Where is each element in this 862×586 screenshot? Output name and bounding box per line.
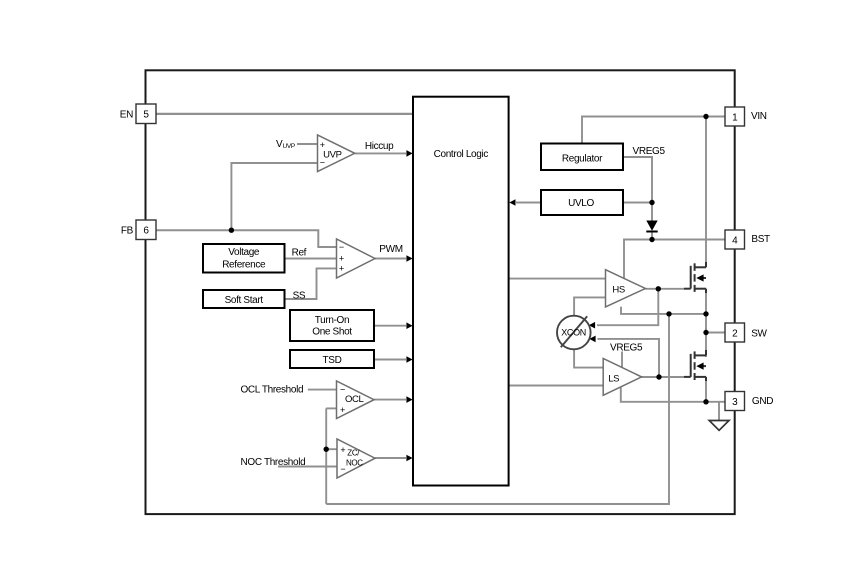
wire LS FET source to GND: [705, 377, 707, 402]
svg-text:SS: SS: [293, 291, 306, 302]
outer IC boundary frame: [146, 70, 735, 514]
svg-text:NOC Threshold: NOC Threshold: [241, 457, 306, 468]
svg-text:EN: EN: [120, 109, 133, 120]
block Regulator: [541, 144, 623, 171]
svg-text:BST: BST: [751, 234, 770, 245]
wire XCON to LS driver: [574, 349, 603, 367]
wire diode cathode to BST line: [651, 232, 653, 240]
node SW sense junction: [666, 311, 671, 316]
svg-text:Reference: Reference: [222, 259, 266, 270]
wire VIN pin to Regulator: [582, 117, 725, 144]
svg-text:TSD: TSD: [323, 355, 342, 366]
svg-text:5: 5: [143, 110, 149, 121]
svg-text:3: 3: [732, 397, 738, 408]
diode D1 bootstrap: [646, 221, 657, 231]
pin 1 VIN: [725, 107, 745, 126]
wire bottom sense line to SW node: [326, 314, 669, 504]
wire NOC Threshold to ZC minus input: [278, 466, 337, 468]
svg-text:+: +: [340, 445, 345, 455]
wire LS output to gate: [642, 376, 684, 378]
wire UVLO output to Control Logic: [516, 202, 541, 204]
wire current sense vertical: [325, 408, 327, 504]
svg-text:Voltage: Voltage: [228, 247, 260, 258]
svg-text:2: 2: [732, 328, 738, 339]
XCON block: [557, 316, 591, 350]
svg-text:UVP: UVP: [283, 143, 295, 150]
wire ZC plus input: [326, 448, 337, 450]
block UVLO: [541, 190, 623, 215]
svg-text:Turn-On: Turn-On: [315, 315, 349, 326]
wire VREG5 stub to LS driver: [621, 352, 623, 368]
wire HS output to gate: [645, 288, 684, 290]
svg-text:+: +: [339, 254, 344, 264]
wire BST line: [624, 240, 725, 279]
wire Ref to PWM comparator: [285, 258, 337, 260]
node GND junction: [703, 399, 708, 404]
driver LS: [603, 359, 641, 396]
wire OCL Threshold to OCL minus input: [308, 389, 337, 391]
wire Control Logic to LS driver input: [509, 385, 604, 387]
svg-text:Ref: Ref: [292, 248, 307, 259]
wire VIN rail down to HS FET drain: [705, 117, 707, 265]
node VIN junction: [703, 114, 708, 119]
svg-text:SW: SW: [751, 329, 767, 340]
svg-text:6: 6: [143, 226, 149, 237]
wire EN pin5 to Control Logic: [156, 113, 413, 115]
ground symbol: [709, 421, 729, 431]
svg-text:VREG5: VREG5: [633, 146, 666, 157]
wire OCL output to Control Logic: [374, 399, 406, 401]
node sense junction: [324, 447, 329, 452]
op-amp OCL comparator: [337, 381, 375, 419]
wire TSD output to Control Logic: [374, 359, 406, 361]
svg-text:VREG5: VREG5: [610, 343, 643, 354]
svg-text:Soft Start: Soft Start: [225, 295, 264, 306]
wire ground stub: [718, 402, 720, 421]
driver HS: [606, 270, 646, 307]
svg-text:+: +: [340, 405, 345, 415]
node SW fet junction: [703, 311, 708, 316]
wire Regulator output VREG5: [623, 157, 652, 221]
transistor Q2 low-side FET: [684, 350, 706, 381]
pin 4 BST: [725, 230, 745, 249]
block Soft Start: [203, 290, 285, 308]
wire Control Logic to HS driver input: [509, 278, 606, 280]
wire LS driver return to GND: [621, 387, 725, 402]
block Turn-On One Shot: [290, 310, 374, 341]
wire Turn-On One Shot output to Control Logic: [374, 325, 406, 327]
op-amp ZC/NOC comparator: [337, 439, 375, 478]
wire Hiccup UVP output to Control Logic: [355, 152, 406, 154]
wire FB to UVP minus input: [231, 163, 317, 230]
block Voltage Reference: [203, 244, 285, 273]
svg-text:NOC: NOC: [346, 458, 363, 467]
svg-text:−: −: [340, 464, 345, 474]
node BST junction: [649, 237, 654, 242]
pin 6 FB: [136, 220, 156, 240]
block TSD: [290, 350, 374, 368]
svg-text:ZC/: ZC/: [347, 449, 360, 458]
svg-text:GND: GND: [752, 396, 773, 407]
node HS output junction: [656, 286, 661, 291]
svg-text:+: +: [320, 140, 325, 150]
wire SW node to pin2: [706, 332, 725, 334]
svg-text:Regulator: Regulator: [562, 153, 603, 164]
svg-text:VIN: VIN: [751, 111, 767, 122]
svg-text:UVLO: UVLO: [568, 198, 594, 209]
wire FB pin6 horizontal: [156, 230, 337, 247]
op-amp PWM comparator: [337, 239, 376, 278]
block Control Logic: [413, 97, 509, 486]
wire UVLO to VREG5 node: [623, 202, 652, 204]
svg-text:UVP: UVP: [323, 150, 341, 161]
wire SW rail between FETs: [705, 289, 707, 357]
svg-text:OCL: OCL: [345, 394, 364, 405]
pin 5 EN: [136, 104, 156, 124]
svg-text:+: +: [339, 263, 344, 273]
node LS output junction: [656, 374, 661, 379]
node FB junction: [229, 228, 234, 233]
svg-text:HS: HS: [612, 284, 625, 295]
svg-text:LS: LS: [608, 374, 619, 385]
svg-text:One Shot: One Shot: [312, 326, 352, 337]
wire OCL plus input from sense line: [326, 407, 336, 409]
svg-text:XCON: XCON: [561, 327, 586, 337]
svg-text:PWM: PWM: [379, 244, 402, 255]
wire HS driver return to SW node: [621, 307, 706, 314]
wire PWM comparator output to Control Logic: [375, 258, 406, 260]
svg-text:Hiccup: Hiccup: [365, 141, 394, 152]
node SW pin junction: [703, 330, 708, 335]
op-amp UVP comparator: [318, 135, 355, 172]
wire SS to PWM comparator: [285, 268, 337, 299]
wire LS output to XCON lower input: [598, 339, 660, 377]
wire ZC/NOC output to Control Logic: [375, 457, 406, 459]
svg-text:Control Logic: Control Logic: [434, 149, 489, 160]
wire XCON to HS driver: [574, 297, 605, 315]
pin 2 SW: [725, 323, 745, 342]
svg-text:4: 4: [732, 235, 738, 246]
svg-text:OCL Threshold: OCL Threshold: [240, 385, 303, 396]
svg-text:1: 1: [732, 112, 738, 123]
wire HS output to XCON upper input: [597, 289, 658, 325]
svg-text:FB: FB: [121, 225, 134, 236]
svg-text:−: −: [339, 242, 344, 252]
pin 3 GND: [725, 392, 745, 411]
wire Vuvp to UVP plus input: [297, 143, 318, 145]
transistor Q1 high-side FET: [684, 262, 706, 293]
node VREG5 junction: [649, 200, 654, 205]
